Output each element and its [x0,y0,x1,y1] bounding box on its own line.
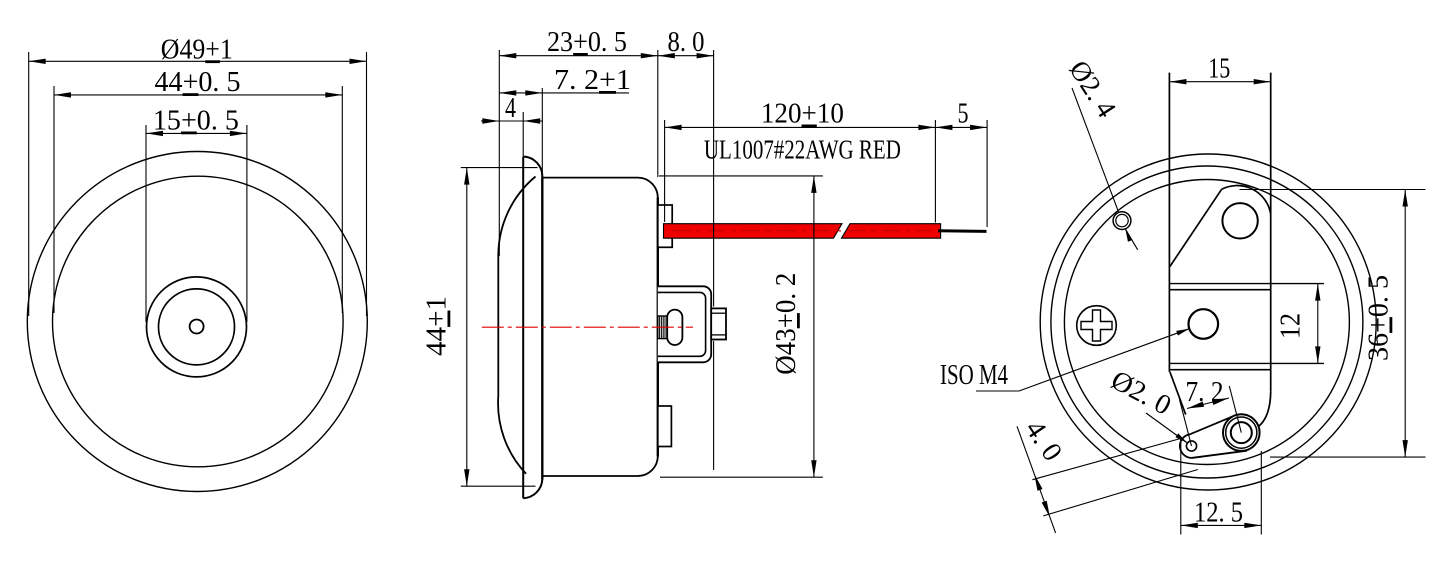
dimension 15 line [1169,81,1270,83]
dimension 12.5 extension lines [1180,437,1182,535]
small hole Ø2.4 inner [1116,214,1128,226]
top tab hole [1222,203,1257,238]
back view inner circle [1064,180,1349,465]
side view red centerline [482,326,693,328]
dimension 23±0.5 extension line left [498,50,500,256]
screw head ring [1226,417,1257,448]
dimension 7.2±1 extension stub [541,88,543,177]
svg-text:5: 5 [958,99,969,130]
back view middle circle [1051,166,1363,478]
dimension 8.0 extension line [713,50,715,307]
svg-text:15: 15 [1208,54,1230,85]
back view outer circle [1040,154,1376,490]
dimension Ø43±0.2 line [813,176,815,477]
lug small hole Ø2.0 [1186,441,1196,451]
back view bracket top tab arc [1222,186,1271,214]
dimension 8.0 line [658,55,714,57]
dimension 12.5 arrows [1181,523,1198,528]
side view mounting bracket outer [658,286,711,362]
dimension 44±1 line [466,168,468,487]
dimension 15±0.5 arrows [146,131,163,136]
dimension 44±1 arrows [464,168,469,185]
back view bracket lower-left diagonal [1170,372,1186,415]
dimension 23±0.5 line [499,55,658,57]
dimension 23±0.5 extension line right [657,50,659,177]
red wire segment 2 [842,224,941,239]
dimension Ø49±1 extension lines [28,52,30,316]
svg-text:ISO M4: ISO M4 [940,360,1008,391]
dimension 12 line [1317,284,1319,364]
svg-text:8. 0: 8. 0 [668,27,705,58]
side view flange top cap [523,157,542,177]
dimension 120±10 arrows [665,125,682,130]
side view screw slot oval [667,310,682,345]
dimension 4 extension stub [522,112,524,156]
svg-text:7. 2: 7. 2 [1186,377,1224,408]
svg-text:36+0. 5: 36+0. 5 [1364,275,1395,361]
svg-text:23+0. 5: 23+0. 5 [547,27,627,58]
red wire segment 1 [664,224,843,239]
dimension 120±10 line [665,126,936,128]
dimension 7.2 line [1187,398,1229,409]
dimension 44±1 extension lines [461,167,538,169]
side view body bottom edge [542,457,658,477]
svg-text:120+10: 120+10 [761,99,844,130]
dimension Ø43±0.2 extension lines [659,175,823,177]
svg-text:Ø43+0. 2: Ø43+0. 2 [771,273,802,375]
dimension 15 arrows [1169,79,1186,84]
side view dome front profile [498,177,535,474]
svg-text:12. 5: 12. 5 [1194,498,1243,529]
dimension 44±0.5 arrows [54,92,71,97]
dimension Ø49±1 arrows [29,59,46,64]
dimension 44±0.5 extension lines [53,86,55,313]
dimension 7.2±1 arrows [499,90,516,95]
side view bottom tab [658,406,672,447]
back view bracket section line / 12 extension bottom [1169,362,1324,364]
dimension 36±0.5 arrows [1403,190,1408,207]
screw head inner circle [1231,422,1252,443]
dimension 4.0 line [1017,426,1056,533]
dimension 15±0.5 extension lines [145,125,147,322]
dimension 8.0 arrows [658,53,675,58]
label ISO M4 underline [976,390,1019,392]
back view bracket right edge / 15 extension [1270,73,1272,392]
screw head outer circle [1223,414,1260,451]
svg-text:44+0. 5: 44+0. 5 [155,67,241,98]
back view bracket lower-right blend [1259,392,1271,427]
wire stripped conductor [938,229,987,233]
front view center boss outer circle 15 [147,277,247,377]
dimension 120±10 extension lines [664,120,666,222]
dimension Ø43±0.2 arrows [811,176,816,193]
svg-text:7. 2+1: 7. 2+1 [554,65,631,96]
svg-text:15+0. 5: 15+0. 5 [153,106,239,137]
dimension 12 arrows [1315,284,1320,301]
dimension 44±0.5 line [54,94,342,96]
side view flange bottom cap [523,480,542,499]
phillips screw cross [1081,310,1112,341]
side view body top edge [542,178,658,198]
label Ø2.0 leader [1146,413,1187,443]
dimension 15±0.5 line [146,132,247,134]
svg-text:UL1007#22AWG RED: UL1007#22AWG RED [704,135,901,165]
side view flange right face [541,177,543,480]
dimension 4.0 arrows [1032,473,1043,491]
dimension 4 line with outside arrows [481,120,543,122]
dimension 5 line [935,126,987,128]
front view center pin hole [190,320,204,334]
dimension 5 extension line [986,120,988,227]
back view bracket top diagonal [1170,189,1222,266]
svg-text:44+1: 44+1 [422,296,453,356]
small hole Ø2.4 outer [1113,212,1131,230]
side view body right face [657,198,659,457]
label ISO M4 leader [1019,329,1189,391]
front view center boss inner circle [159,289,235,365]
back view bracket section line / 12 extension top [1169,283,1324,285]
dimension 23±0.5 arrows [499,53,516,58]
side view screw threaded shank [658,316,667,339]
label Ø2.4 leader [1072,88,1119,212]
dimension 36±0.5 line [1404,190,1406,458]
back view bracket left edge / 15 extension [1168,73,1170,372]
phillips screw circle [1077,306,1117,346]
dimension 12.5 line [1181,524,1262,526]
red wire centerline [672,230,930,232]
svg-text:Ø49+1: Ø49+1 [161,34,233,65]
side view flange left face [522,157,524,499]
dimension 4.0 extension lines [1032,438,1181,479]
dimension Ø49±1 line [29,60,367,62]
side view mounting bracket inner [658,292,706,356]
dimension 36±0.5 extension lines [1240,189,1426,191]
svg-text:4: 4 [505,93,516,124]
dimension 7.2 arrows [1186,401,1204,411]
svg-text:12: 12 [1276,313,1307,339]
back view bracket section lines [1169,289,1270,291]
front view flange circle 44 [53,176,344,467]
lug outline [1180,415,1247,458]
dimension 5 arrows [935,125,952,130]
dimension 7.2±1 line [499,92,629,94]
dimension 7.2 extension lines [1180,400,1192,447]
center hole M4 [1189,309,1219,339]
side view wire exit tab [658,205,672,247]
side view screw head [711,308,726,339]
front view outer circle Ø49 [27,152,367,492]
